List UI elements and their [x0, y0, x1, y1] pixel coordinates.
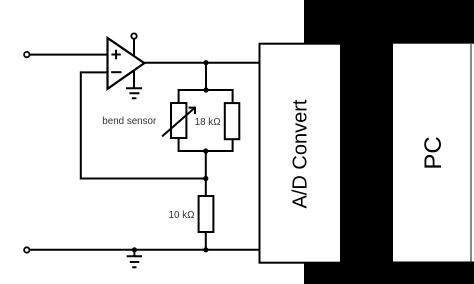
wire: ground stub	[133, 250, 135, 256]
ground (op-amp)	[126, 88, 142, 98]
input terminal (bottom)	[24, 247, 29, 252]
op-amp plus sign	[111, 50, 120, 60]
node: ground junction	[132, 247, 137, 252]
wire: feedback vertical	[80, 71, 82, 178]
wire: right bottom lead	[232, 139, 234, 152]
ground (bottom rail)	[127, 256, 142, 267]
wire: power terminal to op-amp	[133, 39, 135, 57]
PC box gray edge line	[470, 44, 472, 262]
PC box	[393, 44, 474, 262]
op-amp power terminal circle	[131, 33, 136, 38]
op-amp minus sign	[111, 71, 121, 73]
input terminal (top)	[24, 52, 29, 57]
wire: feedback horizontal	[80, 178, 206, 180]
node: divider top junction	[203, 87, 208, 92]
svg-text:bend sensor: bend sensor	[102, 116, 157, 127]
wire: divider bottom to resistor R3	[205, 151, 207, 196]
wire: left bottom lead	[178, 138, 180, 152]
wire: op-amp minus input	[81, 71, 108, 73]
wire: bottom rail of parallel pair	[179, 150, 233, 152]
wire: op-amp output to A/D box	[144, 62, 260, 64]
svg-text:10 kΩ: 10 kΩ	[169, 210, 195, 221]
node: R3 bottom junction	[203, 247, 208, 252]
node: feedback junction	[203, 176, 208, 181]
resistor R3 body (10 k)	[199, 196, 214, 232]
bend sensor arrow	[162, 108, 195, 137]
wire: output junction down to divider top	[205, 63, 207, 90]
wire: top rail of parallel pair	[179, 89, 233, 91]
svg-text:A/D Convert: A/D Convert	[289, 99, 311, 208]
wire: left top lead	[178, 89, 180, 103]
bend sensor R1 body	[171, 103, 186, 138]
wire: input terminal to op-amp + input	[30, 54, 108, 56]
wire: bottom rail	[30, 249, 260, 251]
A/D converter box U2	[260, 44, 342, 263]
resistor R2 body (18 k)	[225, 103, 240, 139]
wire: resistor R3 to bottom rail	[205, 232, 207, 250]
op-amp U1 triangle	[108, 38, 145, 89]
svg-text:PC: PC	[420, 136, 447, 169]
wire: right top lead	[232, 89, 234, 103]
black panel background	[304, 0, 474, 284]
svg-text:18 kΩ: 18 kΩ	[195, 117, 221, 128]
node: divider bottom junction	[203, 148, 208, 153]
wire: op-amp to ground stub	[133, 70, 135, 89]
node: output junction	[203, 60, 208, 65]
